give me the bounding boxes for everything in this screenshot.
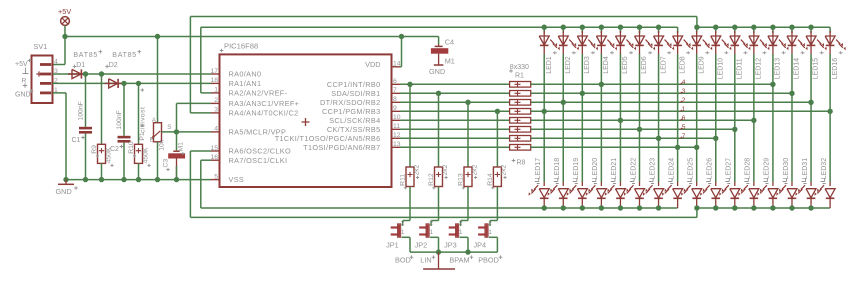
svg-text:LED1: LED1 [546, 56, 553, 74]
svg-text:D1: D1 [76, 62, 85, 69]
svg-text:LED2: LED2 [565, 56, 572, 74]
svg-text:5: 5 [214, 173, 218, 180]
svg-text:GND: GND [429, 67, 445, 76]
svg-text:citlivost: citlivost [139, 107, 146, 133]
svg-text:LED24: LED24 [668, 158, 675, 180]
svg-text:R11: R11 [400, 174, 407, 186]
svg-text:CCP1/PGM/RB3: CCP1/PGM/RB3 [322, 107, 381, 116]
svg-text:100nF: 100nF [78, 101, 85, 120]
svg-text:1: 1 [429, 229, 433, 236]
svg-text:LED10: LED10 [717, 58, 724, 80]
svg-text:LED25: LED25 [687, 158, 694, 180]
svg-text:LED9: LED9 [698, 56, 705, 74]
svg-text:VSS: VSS [229, 175, 245, 184]
svg-text:10: 10 [393, 114, 401, 121]
svg-text:12: 12 [393, 132, 401, 139]
svg-text:R: R [22, 77, 27, 84]
svg-text:LED15: LED15 [813, 58, 820, 80]
svg-text:JP2: JP2 [415, 241, 428, 250]
svg-text:LED19: LED19 [573, 158, 580, 180]
svg-text:8x330: 8x330 [510, 64, 529, 71]
svg-text:18: 18 [210, 77, 218, 84]
svg-text:GND: GND [56, 187, 72, 196]
svg-text:LED32: LED32 [821, 158, 828, 180]
svg-text:VDD: VDD [365, 60, 380, 69]
svg-text:SDA/SDI/RB1: SDA/SDI/RB1 [331, 89, 380, 98]
svg-text:PBOD: PBOD [478, 256, 499, 265]
svg-text:2: 2 [214, 97, 218, 104]
svg-text:2k2: 2k2 [413, 164, 420, 175]
svg-text:PIC16F88: PIC16F88 [224, 42, 258, 51]
svg-text:LED16: LED16 [832, 58, 839, 80]
svg-text:DT/RX/SDO/RB2: DT/RX/SDO/RB2 [320, 98, 381, 107]
svg-text:2: 2 [459, 220, 463, 227]
svg-text:4: 4 [54, 59, 58, 66]
svg-text:R8: R8 [517, 159, 526, 166]
svg-text:2k2: 2k2 [501, 164, 508, 175]
svg-text:2: 2 [401, 220, 405, 227]
svg-text:P1: P1 [139, 132, 146, 141]
svg-text:LED7: LED7 [660, 56, 667, 74]
svg-text:LED17: LED17 [535, 158, 542, 180]
svg-text:LED31: LED31 [802, 158, 809, 180]
svg-text:RA7/OSC1/CLKI: RA7/OSC1/CLKI [229, 156, 288, 165]
svg-text:JP1: JP1 [386, 241, 399, 250]
svg-text:LED11: LED11 [737, 58, 744, 79]
svg-text:R9: R9 [91, 145, 98, 154]
svg-text:3: 3 [214, 107, 218, 114]
svg-text:RA2/AN2/VREF-: RA2/AN2/VREF- [229, 89, 288, 98]
svg-text:+5V: +5V [58, 7, 71, 16]
svg-text:D2: D2 [109, 62, 118, 69]
svg-text:LED8: LED8 [679, 56, 686, 74]
svg-text:E: E [150, 137, 154, 144]
svg-text:450K: 450K [143, 147, 150, 163]
svg-text:11: 11 [393, 123, 400, 130]
svg-text:LED18: LED18 [554, 158, 561, 180]
svg-text:2: 2 [488, 220, 492, 227]
svg-text:JP3: JP3 [444, 241, 457, 250]
svg-text:4: 4 [682, 79, 686, 86]
svg-text:BAT85: BAT85 [112, 52, 137, 59]
svg-text:5: 5 [682, 124, 686, 131]
svg-text:S: S [167, 124, 171, 131]
svg-text:C3: C3 [163, 159, 170, 168]
svg-text:8: 8 [393, 96, 397, 103]
svg-text:BPAM: BPAM [449, 256, 469, 265]
svg-text:R1: R1 [515, 73, 524, 80]
svg-text:1: 1 [401, 229, 405, 236]
svg-text:10k: 10k [158, 139, 165, 151]
svg-text:RA6/OSC2/CLKO: RA6/OSC2/CLKO [229, 147, 292, 156]
svg-text:1: 1 [459, 229, 463, 236]
svg-text:LED22: LED22 [630, 158, 637, 180]
svg-text:R13: R13 [458, 173, 465, 186]
svg-text:BOD: BOD [395, 256, 411, 265]
svg-text:T1OSI/PGD/AN6/RB7: T1OSI/PGD/AN6/RB7 [303, 143, 380, 152]
svg-text:2k2: 2k2 [471, 164, 478, 175]
svg-text:13: 13 [393, 141, 401, 148]
svg-text:C1: C1 [72, 137, 81, 144]
svg-text:LED28: LED28 [745, 158, 752, 180]
svg-text:LED14: LED14 [794, 58, 801, 80]
svg-text:2k2: 2k2 [442, 164, 449, 175]
svg-text:T1CKI/T1OSO/PGC/AN5/RB6: T1CKI/T1OSO/PGC/AN5/RB6 [275, 134, 381, 143]
svg-text:15: 15 [210, 145, 218, 152]
svg-text:CK/TX/SS/RB5: CK/TX/SS/RB5 [327, 125, 381, 134]
svg-text:M1: M1 [177, 142, 184, 152]
svg-text:LED13: LED13 [775, 58, 782, 80]
svg-text:M1: M1 [445, 57, 455, 66]
svg-text:R14: R14 [487, 173, 494, 186]
svg-text:JP4: JP4 [474, 241, 487, 250]
svg-text:LED5: LED5 [622, 56, 629, 74]
svg-text:LED6: LED6 [641, 56, 648, 74]
svg-text:SV1: SV1 [34, 42, 48, 51]
svg-text:RA1/AN1: RA1/AN1 [229, 79, 262, 88]
svg-text:2: 2 [429, 220, 433, 227]
svg-text:LED29: LED29 [764, 158, 771, 180]
svg-text:7: 7 [682, 133, 686, 140]
svg-text:LED23: LED23 [649, 158, 656, 180]
svg-text:R10: R10 [128, 141, 135, 154]
svg-text:LED20: LED20 [592, 158, 599, 180]
svg-text:RA0/AN0: RA0/AN0 [229, 70, 262, 79]
svg-text:14: 14 [393, 61, 401, 68]
svg-text:GND: GND [15, 91, 31, 98]
svg-text:RA3/AN3C1/VREF+: RA3/AN3C1/VREF+ [229, 99, 300, 108]
svg-text:2: 2 [682, 97, 686, 104]
svg-text:LIN: LIN [420, 256, 431, 265]
svg-text:100nF: 100nF [116, 110, 123, 129]
svg-text:6: 6 [393, 78, 397, 85]
svg-text:3: 3 [682, 88, 686, 95]
svg-text:17: 17 [210, 68, 218, 75]
svg-text:LED12: LED12 [756, 58, 763, 80]
svg-text:450K: 450K [106, 147, 113, 163]
svg-text:SCL/SCK/RB4: SCL/SCK/RB4 [329, 116, 380, 125]
svg-text:C4: C4 [445, 37, 454, 46]
svg-text:9: 9 [393, 105, 397, 112]
svg-text:LED30: LED30 [783, 158, 790, 180]
svg-text:4: 4 [214, 126, 218, 133]
svg-text:RA4/AN4/T0CKI/C2: RA4/AN4/T0CKI/C2 [229, 109, 299, 118]
svg-text:7: 7 [393, 87, 397, 94]
svg-text:LED26: LED26 [707, 158, 714, 180]
svg-text:1: 1 [682, 106, 686, 113]
svg-text:1: 1 [488, 229, 492, 236]
svg-text:LED3: LED3 [584, 56, 591, 74]
svg-text:LED21: LED21 [611, 158, 618, 180]
svg-text:+5V: +5V [15, 61, 28, 68]
svg-text:R12: R12 [428, 173, 435, 186]
svg-text:BAT85: BAT85 [73, 52, 98, 59]
svg-text:1: 1 [214, 87, 218, 94]
svg-text:CCP1/INT/RB0: CCP1/INT/RB0 [327, 80, 381, 89]
svg-text:LED27: LED27 [726, 158, 733, 180]
svg-text:6: 6 [682, 115, 686, 122]
svg-text:LED4: LED4 [603, 56, 610, 74]
svg-text:16: 16 [210, 154, 218, 161]
